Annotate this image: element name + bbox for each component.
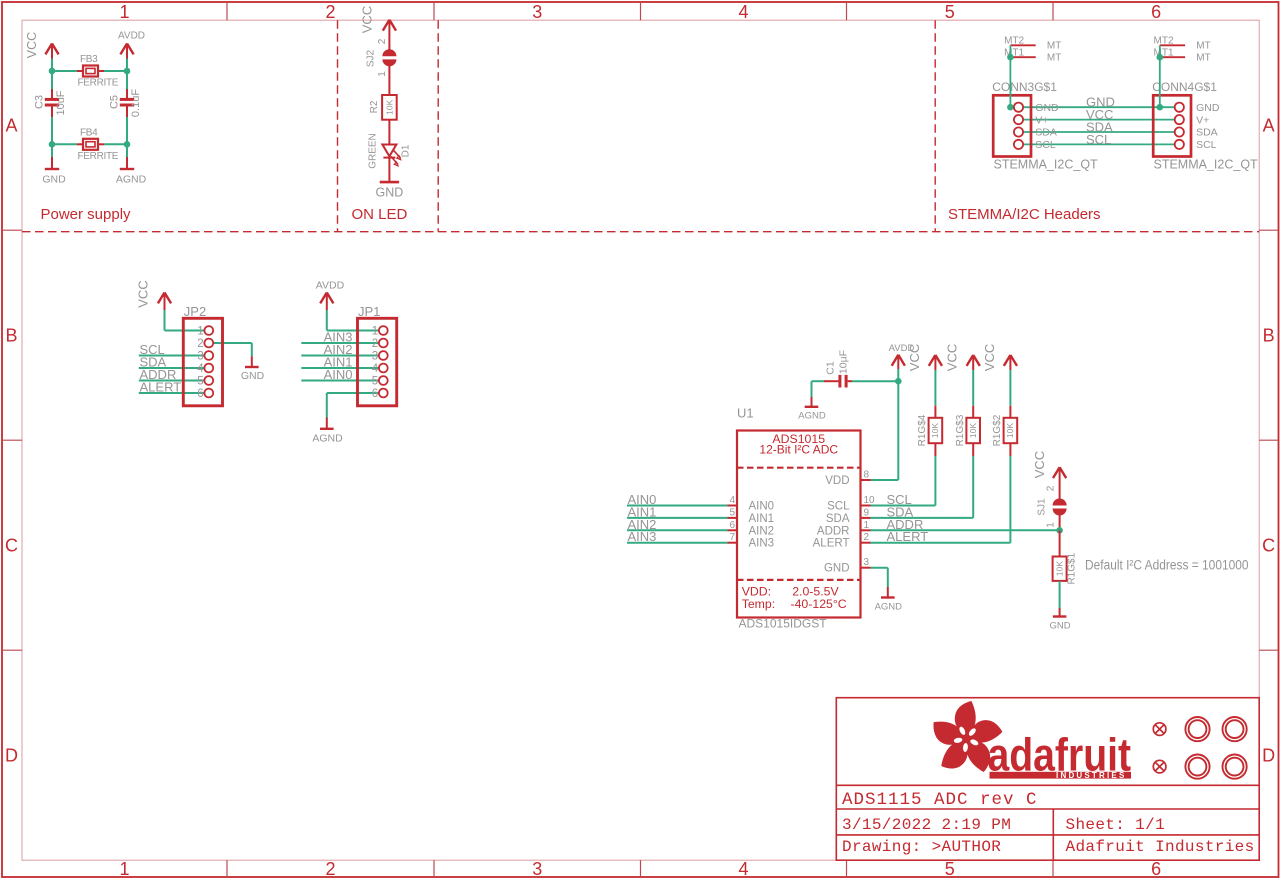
svg-text:SCL: SCL (1196, 139, 1217, 151)
svg-text:4: 4 (729, 495, 735, 506)
svg-text:GND: GND (1050, 621, 1071, 632)
svg-text:1: 1 (197, 326, 203, 338)
svg-text:FERRITE: FERRITE (78, 78, 119, 89)
svg-text:R2: R2 (369, 100, 380, 113)
svg-text:Power supply: Power supply (41, 206, 132, 223)
svg-text:AIN2: AIN2 (749, 525, 775, 537)
svg-text:MT: MT (1196, 53, 1210, 64)
svg-text:GND: GND (1035, 102, 1059, 114)
svg-text:V+: V+ (1196, 114, 1209, 126)
svg-text:V+: V+ (1035, 114, 1048, 126)
svg-text:1: 1 (377, 71, 388, 77)
svg-text:3: 3 (532, 859, 542, 879)
svg-text:3: 3 (197, 351, 203, 363)
svg-text:VDD: VDD (825, 475, 849, 487)
svg-text:VCC: VCC (945, 344, 960, 371)
svg-text:SDA: SDA (1035, 127, 1057, 139)
svg-text:Sheet: 1/1: Sheet: 1/1 (1066, 816, 1166, 834)
svg-text:2: 2 (377, 38, 388, 44)
svg-text:5: 5 (945, 2, 955, 22)
svg-text:SJ2: SJ2 (366, 49, 377, 67)
svg-text:6: 6 (1151, 2, 1161, 22)
svg-text:6: 6 (197, 388, 203, 400)
svg-text:VCC: VCC (982, 344, 997, 371)
svg-text:MT2: MT2 (1154, 36, 1174, 47)
svg-text:4: 4 (197, 363, 204, 375)
svg-text:Default I²C Address = 1001000: Default I²C Address = 1001000 (1085, 558, 1249, 573)
svg-text:CONN3G$1: CONN3G$1 (992, 80, 1057, 94)
svg-text:SCL: SCL (1035, 139, 1056, 151)
svg-text:5: 5 (197, 376, 203, 388)
svg-text:R1G$3: R1G$3 (955, 414, 966, 446)
svg-text:C: C (5, 536, 18, 556)
svg-text:JP2: JP2 (184, 304, 206, 319)
svg-text:STEMMA_I2C_QT: STEMMA_I2C_QT (1154, 158, 1259, 172)
svg-text:6: 6 (729, 520, 735, 531)
svg-text:AGND: AGND (875, 602, 903, 613)
svg-text:ADDR: ADDR (817, 525, 850, 537)
svg-text:4: 4 (372, 363, 379, 375)
svg-text:4: 4 (738, 859, 748, 879)
svg-text:MT: MT (1047, 53, 1061, 64)
svg-text:AVDD: AVDD (316, 280, 345, 292)
svg-text:ADS1015IDGST: ADS1015IDGST (739, 616, 828, 630)
svg-text:Temp:: Temp: (742, 597, 776, 611)
svg-text:GND: GND (241, 370, 265, 382)
svg-text:4: 4 (738, 2, 748, 22)
svg-text:R1G$2: R1G$2 (992, 414, 1003, 446)
svg-text:GND: GND (1196, 102, 1220, 114)
svg-text:VCC: VCC (1032, 451, 1047, 478)
svg-text:1: 1 (372, 326, 378, 338)
svg-text:MT: MT (1196, 41, 1210, 52)
svg-text:JP1: JP1 (358, 304, 380, 319)
svg-text:3: 3 (532, 2, 542, 22)
svg-text:2: 2 (372, 338, 378, 350)
svg-text:SDA: SDA (1196, 127, 1218, 139)
svg-text:7: 7 (729, 532, 735, 543)
svg-text:MT: MT (1047, 41, 1061, 52)
svg-text:2: 2 (864, 532, 870, 543)
svg-text:ADS1115 ADC rev C: ADS1115 ADC rev C (842, 790, 1038, 810)
svg-text:10µF: 10µF (838, 350, 850, 374)
svg-text:VCC: VCC (25, 32, 39, 58)
svg-text:C: C (1262, 536, 1275, 556)
svg-text:Drawing: >AUTHOR: Drawing: >AUTHOR (842, 838, 1001, 856)
svg-text:AVDD: AVDD (118, 31, 145, 42)
svg-text:Adafruit Industries: Adafruit Industries (1066, 838, 1255, 856)
svg-text:AGND: AGND (116, 174, 147, 186)
svg-text:10: 10 (864, 495, 876, 506)
svg-text:AIN0: AIN0 (324, 367, 353, 382)
svg-text:5: 5 (729, 507, 735, 518)
svg-text:AIN1: AIN1 (749, 513, 775, 525)
svg-text:6: 6 (1151, 859, 1161, 879)
svg-text:10uF: 10uF (55, 90, 67, 115)
svg-text:GREEN: GREEN (368, 133, 379, 169)
svg-text:ALERT: ALERT (887, 529, 929, 544)
svg-text:STEMMA_I2C_QT: STEMMA_I2C_QT (994, 158, 1099, 172)
svg-text:0.1uF: 0.1uF (130, 89, 142, 117)
svg-text:2: 2 (197, 338, 203, 350)
svg-text:ON LED: ON LED (352, 206, 408, 223)
svg-text:AIN3: AIN3 (628, 529, 657, 544)
svg-text:10K: 10K (384, 99, 394, 114)
svg-text:SCL: SCL (827, 501, 850, 513)
svg-text:12-Bit I²C ADC: 12-Bit I²C ADC (759, 443, 838, 457)
svg-text:CONN4G$1: CONN4G$1 (1152, 80, 1217, 94)
svg-text:5: 5 (372, 376, 378, 388)
svg-text:C5: C5 (109, 95, 121, 109)
svg-text:1: 1 (119, 2, 129, 22)
svg-text:1: 1 (1046, 522, 1057, 528)
svg-text:VCC: VCC (136, 280, 151, 307)
svg-text:FERRITE: FERRITE (78, 151, 119, 162)
svg-text:10K: 10K (1055, 561, 1065, 576)
svg-text:5: 5 (945, 859, 955, 879)
svg-text:R1G$1: R1G$1 (1067, 552, 1078, 584)
svg-text:GND: GND (376, 186, 404, 200)
svg-text:MT2: MT2 (1004, 36, 1024, 47)
svg-text:AIN0: AIN0 (749, 501, 775, 513)
svg-text:10K: 10K (968, 423, 978, 438)
svg-text:A: A (1263, 116, 1275, 136)
svg-text:B: B (5, 326, 17, 346)
svg-text:VCC: VCC (360, 6, 375, 33)
svg-text:1: 1 (119, 859, 129, 879)
svg-text:2: 2 (325, 859, 335, 879)
svg-text:R1G$4: R1G$4 (917, 414, 928, 446)
svg-text:D: D (1262, 746, 1275, 766)
svg-text:SCL: SCL (1086, 132, 1111, 147)
svg-text:GND: GND (42, 174, 66, 186)
svg-text:ALERT: ALERT (140, 380, 182, 395)
svg-text:SDA: SDA (826, 513, 850, 525)
svg-text:10K: 10K (1005, 423, 1015, 438)
svg-text:AGND: AGND (312, 433, 343, 445)
svg-text:STEMMA/I2C Headers: STEMMA/I2C Headers (948, 206, 1101, 223)
svg-text:8: 8 (864, 470, 870, 481)
svg-text:GND: GND (824, 563, 850, 575)
svg-text:3: 3 (372, 351, 378, 363)
svg-text:9: 9 (864, 507, 870, 518)
svg-text:A: A (5, 116, 17, 136)
svg-text:10K: 10K (930, 423, 940, 438)
svg-text:AGND: AGND (798, 411, 826, 422)
svg-text:D: D (5, 746, 18, 766)
svg-text:D1: D1 (401, 144, 412, 157)
svg-text:3: 3 (864, 557, 870, 568)
svg-text:SJ1: SJ1 (1037, 498, 1048, 516)
svg-text:C3: C3 (34, 95, 46, 109)
svg-text:B: B (1263, 326, 1275, 346)
svg-text:AIN3: AIN3 (749, 538, 775, 550)
svg-text:3/15/2022 2:19 PM: 3/15/2022 2:19 PM (842, 816, 1011, 834)
svg-text:2: 2 (1046, 485, 1057, 491)
svg-text:FB4: FB4 (80, 128, 98, 139)
svg-text:FB3: FB3 (80, 54, 98, 65)
svg-text:C1: C1 (825, 361, 837, 375)
svg-text:6: 6 (372, 388, 378, 400)
svg-text:1: 1 (864, 520, 870, 531)
svg-text:ALERT: ALERT (813, 538, 850, 550)
svg-text:-40-125°C: -40-125°C (791, 597, 847, 611)
svg-text:VCC: VCC (907, 344, 922, 371)
svg-text:U1: U1 (737, 406, 754, 421)
svg-text:2: 2 (325, 2, 335, 22)
svg-text:INDUSTRIES: INDUSTRIES (1056, 771, 1126, 780)
